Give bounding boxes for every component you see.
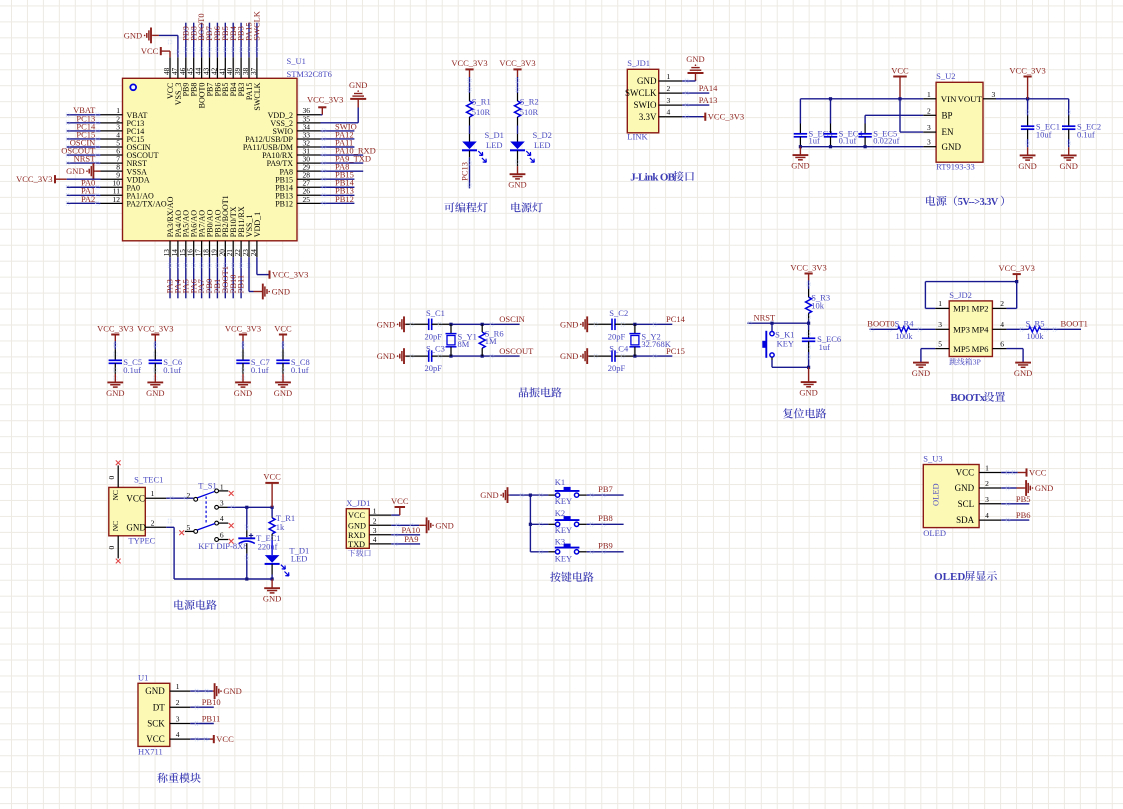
display S_U3 reference — [923, 454, 942, 464]
svg-text:3P: 3P — [973, 358, 982, 367]
U1 HX711 pin numbers — [176, 682, 180, 739]
svg-text:NC: NC — [111, 521, 120, 531]
svg-text:VCC_3V3: VCC_3V3 — [97, 323, 133, 333]
svg-text:VCC: VCC — [126, 493, 145, 503]
switch T_S1 dashed link — [205, 497, 207, 524]
net label PB8 wire (U1 top pin 45) — [188, 23, 198, 58]
svg-text:GND: GND — [126, 522, 146, 532]
svg-text:3: 3 — [220, 499, 224, 508]
svg-text:6: 6 — [1000, 339, 1004, 348]
svg-text:HX711: HX711 — [138, 747, 163, 757]
connector S_JD1 body — [627, 69, 658, 133]
svg-text:15: 15 — [179, 249, 187, 257]
power VCC at S_U3 pin 1 — [1001, 468, 1047, 478]
svg-text:STM32C8T6: STM32C8T6 — [287, 69, 332, 79]
ground below S_C5 — [106, 374, 124, 398]
wire S_JD2 pin5 to ground — [921, 349, 935, 363]
net label PA6 wire (U1 bottom pin 16) — [188, 257, 198, 298]
svg-text:1: 1 — [667, 72, 671, 81]
net label PA12 wire (U1 pin 33) — [321, 129, 355, 140]
ground at U1 pin 35 VSS_2 — [321, 80, 368, 123]
resistor S_R3 10k — [806, 280, 831, 319]
svg-text:5V-->3.3V: 5V-->3.3V — [958, 197, 999, 208]
svg-text:LED: LED — [534, 140, 551, 150]
U1 top pin names — [166, 82, 262, 110]
capacitor S_EC1 10uf — [1021, 99, 1060, 148]
svg-text:VCC_3V3: VCC_3V3 — [708, 112, 744, 122]
resistor S_R6 1M — [479, 324, 503, 356]
svg-text:BOOT0: BOOT0 — [867, 319, 894, 329]
key K2 — [555, 508, 580, 535]
power VCC above S_C8 — [274, 323, 292, 341]
svg-text:K2: K2 — [555, 508, 565, 518]
wire VCC_3V3 to S_C6 — [154, 341, 158, 356]
svg-text:GND: GND — [106, 388, 124, 398]
display S_U3 part name OLED — [923, 528, 946, 538]
wire S_JD2 pin6 to ground — [1007, 349, 1024, 363]
svg-text:12: 12 — [113, 195, 121, 204]
svg-text:SWIO: SWIO — [634, 100, 657, 110]
svg-text:48: 48 — [163, 67, 171, 75]
svg-text:SDA: SDA — [956, 515, 975, 525]
svg-text:PB9: PB9 — [598, 541, 613, 551]
power VCC_3V3 above R2 — [499, 58, 535, 77]
svg-text:PB5: PB5 — [1016, 494, 1031, 504]
svg-text:MP2: MP2 — [972, 304, 989, 314]
svg-text:2: 2 — [373, 517, 377, 526]
X_JD1 pin leads — [369, 515, 391, 544]
svg-text:25: 25 — [303, 195, 311, 204]
svg-text:0.022uf: 0.022uf — [873, 136, 899, 146]
regulator S_U2 part number — [936, 162, 975, 172]
svg-text:0.1uf: 0.1uf — [163, 365, 181, 375]
svg-text:GND: GND — [377, 319, 395, 329]
wire TYPEC VCC to switch pin2 — [166, 496, 194, 500]
svg-text:0: 0 — [107, 476, 116, 480]
svg-text:VOUT: VOUT — [958, 94, 983, 104]
net label PB4 wire (U1 top pin 40) — [228, 23, 238, 58]
power VCC_3V3 at U1 pin 36 VDD_2 — [307, 95, 343, 115]
svg-text:18: 18 — [203, 249, 211, 257]
capacitor S_C2 20pF — [589, 308, 633, 341]
connector X_JD1 part name 下载口 — [348, 549, 371, 556]
net label PC14 wire (U1 pin 3) — [66, 121, 100, 132]
svg-text:OLED: OLED — [931, 483, 941, 506]
power VCC_3V3 above R1 — [451, 58, 487, 77]
ground left of S_C2 — [560, 316, 589, 332]
svg-text:TXD: TXD — [348, 540, 365, 549]
net label BOOT0 wire (U1 top pin 44) — [196, 13, 206, 57]
U1 right pin leads 25-36 — [297, 115, 321, 204]
svg-text:GND: GND — [124, 30, 142, 40]
ground at U1 pin 47 VSS_3 — [124, 28, 178, 58]
svg-text:13: 13 — [163, 249, 171, 257]
svg-text:S_C1: S_C1 — [426, 308, 445, 318]
capacitor S_C1 20pF — [406, 308, 450, 341]
switch T_S1 contact 4 — [215, 514, 234, 528]
net label PA15 wire (U1 top pin 38) — [244, 22, 254, 57]
svg-text:MP5: MP5 — [953, 344, 970, 354]
svg-text:S_R2: S_R2 — [520, 97, 539, 107]
net label PA10 wire (X_JD1 pin 3) — [391, 525, 420, 537]
svg-text:S_JD2: S_JD2 — [949, 290, 972, 300]
net label PA13 wire (S_JD1 pin 3) — [682, 95, 717, 107]
power VCC_3V3 above S_C7 — [225, 323, 261, 341]
U1 left pin leads 1-12 — [101, 115, 123, 204]
svg-text:S_TEC1: S_TEC1 — [134, 475, 163, 485]
svg-text:1uf: 1uf — [809, 136, 821, 146]
S_JD2 pin numbers — [938, 299, 1004, 348]
LED S_D1 — [462, 130, 504, 162]
svg-text:PB10: PB10 — [202, 697, 221, 707]
net label PC15 wire (U1 pin 4) — [66, 129, 100, 140]
regulator S_U2 reference — [936, 71, 955, 81]
svg-text:LED: LED — [486, 140, 503, 150]
net label PB10 wire (U1 bottom pin 21) — [228, 257, 238, 298]
S_U3 pin numbers — [985, 464, 989, 521]
svg-text:GND: GND — [274, 388, 292, 398]
wire R3 to NRST node — [807, 320, 810, 325]
svg-text:NRST: NRST — [754, 312, 777, 322]
svg-text:VCC_3V3: VCC_3V3 — [999, 263, 1035, 273]
net label OSCOUT wire (U1 pin 6) — [61, 145, 100, 156]
S_JD2 pin leads — [935, 308, 1006, 348]
svg-text:VCC: VCC — [141, 46, 159, 56]
ground left of S_C3 — [377, 348, 406, 364]
ground below S_C7 — [234, 374, 252, 398]
svg-text:PB7: PB7 — [598, 484, 613, 494]
svg-text:EN: EN — [942, 127, 954, 137]
svg-text:S_C3: S_C3 — [426, 343, 445, 353]
wire VIN rail — [800, 97, 923, 100]
svg-text:PB12: PB12 — [335, 194, 354, 204]
capacitor S_EC6 1uf — [802, 323, 841, 367]
X_JD1 pin names — [348, 511, 366, 549]
wire VCC_3V3 to S_C7 — [241, 341, 245, 356]
svg-text:OSCIN: OSCIN — [499, 314, 525, 324]
svg-text:4: 4 — [220, 514, 224, 523]
svg-text:MP6: MP6 — [972, 344, 990, 354]
svg-text:46: 46 — [179, 67, 187, 75]
svg-text:VCC: VCC — [1029, 468, 1047, 478]
svg-text:GND: GND — [480, 490, 498, 500]
svg-text:OSCOUT: OSCOUT — [499, 346, 534, 356]
wire VOUT rail — [996, 97, 1069, 100]
LED S_D2 — [510, 130, 552, 162]
X_JD1 pin numbers — [373, 506, 377, 544]
svg-text:GND: GND — [942, 142, 962, 152]
svg-text:VCC_3V3: VCC_3V3 — [272, 270, 308, 280]
ground at X_JD1 pin 2 — [391, 517, 454, 533]
ground at S_JD1 pin 1 — [682, 54, 704, 83]
S_U3 pin names — [955, 468, 975, 526]
ground below T_D1 — [263, 579, 281, 604]
net label SWCLK wire (U1 top pin 37) — [252, 10, 262, 57]
capacitor S_C6 0.1uf — [149, 349, 183, 380]
power VCC_3V3 above S_C5 — [97, 323, 133, 341]
power VCC_3V3 at U1 pin 9 VDDA — [16, 174, 100, 184]
svg-text:GND: GND — [349, 80, 367, 90]
svg-text:20pF: 20pF — [608, 331, 626, 341]
svg-text:K1: K1 — [555, 477, 565, 487]
svg-text:4: 4 — [667, 108, 671, 117]
svg-text:1M: 1M — [485, 336, 497, 346]
svg-text:16: 16 — [187, 249, 195, 257]
U1 left pin names — [127, 111, 167, 209]
svg-text:LINK: LINK — [627, 132, 648, 142]
svg-text:1: 1 — [176, 682, 180, 691]
svg-text:19: 19 — [210, 249, 218, 257]
svg-text:GND: GND — [1014, 368, 1032, 378]
connector S_JD1 reference — [627, 58, 650, 68]
ground below reset node — [799, 366, 817, 398]
ground left of S_C1 — [377, 316, 406, 332]
svg-text:220uf: 220uf — [258, 541, 278, 551]
svg-text:BP: BP — [942, 110, 953, 120]
svg-text:S_JD1: S_JD1 — [627, 58, 650, 68]
net label BOOT0 wire — [867, 319, 897, 332]
svg-text:RXD: RXD — [348, 531, 366, 540]
U1 bottom pin numbers 13-24 — [163, 249, 258, 257]
bottom pins connection dots — [168, 264, 251, 292]
svg-text:SWCLK: SWCLK — [252, 10, 262, 41]
svg-text:T_S1: T_S1 — [198, 481, 216, 491]
svg-text:17: 17 — [195, 249, 203, 257]
wire VCC_3V3 to R2 — [516, 77, 520, 93]
IC S_U1 part number — [287, 69, 332, 79]
svg-text:1: 1 — [151, 489, 155, 498]
svg-text:6: 6 — [220, 531, 224, 540]
svg-text:PB11: PB11 — [202, 714, 221, 724]
svg-text:VCC: VCC — [274, 323, 292, 333]
key K3 — [555, 537, 580, 564]
svg-text:PA14: PA14 — [699, 83, 718, 93]
svg-text:GND: GND — [508, 180, 526, 190]
svg-text:GND: GND — [377, 351, 395, 361]
svg-text:PA9: PA9 — [404, 534, 418, 544]
resistor T_R1 1k — [269, 507, 295, 540]
wire switch pin3 to VCC node — [228, 506, 274, 510]
net label PB6 wire (S_U3 pin 4) — [1001, 510, 1030, 522]
svg-text:S_R5: S_R5 — [1026, 319, 1045, 329]
svg-text:PA2/TX/AO: PA2/TX/AO — [127, 199, 167, 208]
svg-text:VCC: VCC — [146, 734, 165, 744]
caption BOOTx设置 — [950, 392, 1005, 404]
S_JD1 pin names — [625, 76, 657, 122]
net label PB7 wire (U1 top pin 43) — [204, 23, 214, 58]
wire EN to VCC node — [900, 99, 923, 132]
switch T_S1 reference — [198, 481, 216, 491]
svg-text:20pF: 20pF — [425, 331, 443, 341]
wire bus to K3 — [530, 550, 555, 554]
svg-text:VCC: VCC — [216, 734, 234, 744]
wire T_R1 to T_D1 — [271, 540, 273, 555]
net label PA1 wire (U1 pin 11) — [66, 186, 100, 197]
capacitor S_EC3 1uf — [794, 99, 833, 147]
svg-text:SWCLK: SWCLK — [253, 82, 262, 110]
net label PB9 wire (K3) — [579, 541, 624, 554]
U1 right pin names — [243, 111, 294, 209]
svg-text:VCC: VCC — [348, 511, 366, 520]
key K1 — [555, 477, 580, 506]
wire TYPEC GND rail — [166, 519, 272, 580]
ground below S_C6 — [146, 374, 164, 398]
power VCC at U1 pin 4 — [190, 734, 234, 744]
resistor S_R1 510R — [467, 93, 491, 126]
net label PB5 wire (U1 top pin 41) — [220, 23, 230, 58]
svg-text:3: 3 — [938, 320, 942, 329]
svg-text:2: 2 — [985, 479, 989, 488]
svg-text:VIN: VIN — [941, 94, 957, 104]
wire OSCOUT net — [449, 346, 534, 358]
ground below S_JD2 pin6 — [1014, 362, 1032, 378]
ground below S_EC2 — [1059, 147, 1077, 171]
wire PC14 net — [633, 314, 686, 326]
svg-text:47: 47 — [171, 67, 179, 75]
svg-text:20pF: 20pF — [608, 363, 626, 373]
svg-text:TYPEC: TYPEC — [128, 536, 155, 546]
caption OLED屏显示 — [934, 571, 997, 583]
svg-text:S_C2: S_C2 — [609, 308, 628, 318]
svg-text:3: 3 — [927, 123, 931, 132]
wire VCC to S_C8 — [281, 341, 285, 356]
svg-text:39: 39 — [234, 67, 242, 75]
connector S_JD2 body — [949, 301, 992, 357]
svg-text:U1: U1 — [138, 672, 148, 682]
net label PC13 wire (U1 pin 2) — [66, 113, 100, 124]
svg-text:37: 37 — [250, 67, 258, 75]
svg-text:J-Link OB: J-Link OB — [630, 171, 675, 183]
U1 HX711 pin names — [145, 686, 165, 744]
ground left of S_C4 — [560, 348, 589, 364]
svg-text:43: 43 — [203, 67, 211, 75]
ground below S_C8 — [274, 374, 292, 398]
net label PB9 wire (U1 top pin 46) — [180, 23, 190, 58]
svg-text:4: 4 — [373, 535, 377, 544]
svg-text:3: 3 — [985, 495, 989, 504]
S_JD1 pin numbers — [667, 72, 671, 117]
regulator S_U2 body — [936, 82, 983, 162]
net label VBAT wire (U1 pin 1) — [66, 105, 100, 116]
svg-text:1: 1 — [220, 482, 224, 491]
svg-text:NC: NC — [111, 490, 120, 500]
switch T_S1 contact 6 — [215, 531, 234, 544]
S_U3 OLED side label — [931, 483, 941, 506]
S_TEC1 bottom NC pin 0 — [107, 536, 121, 564]
svg-text:GND: GND — [955, 483, 975, 493]
svg-text:S_U3: S_U3 — [923, 454, 942, 464]
net label PA0 wire (U1 pin 10) — [66, 178, 100, 189]
net label PB5 wire (S_U3 pin 3) — [1001, 494, 1030, 506]
svg-text:GND: GND — [1035, 483, 1053, 493]
svg-text:KEY: KEY — [555, 554, 572, 564]
svg-text:22: 22 — [234, 249, 242, 257]
capacitor S_C3 20pF — [406, 343, 450, 373]
ground at U1 pin 23 VSS_1 — [249, 257, 290, 299]
svg-text:OLED: OLED — [934, 571, 965, 583]
svg-text:PB11: PB11 — [236, 275, 246, 294]
wire VCC_3V3 to S_C5 — [114, 341, 118, 356]
svg-text:1uf: 1uf — [819, 342, 831, 352]
svg-text:S_D2: S_D2 — [533, 130, 552, 140]
svg-text:VCC_3V3: VCC_3V3 — [790, 262, 826, 272]
net label PA14 wire (S_JD1 pin 2) — [682, 83, 718, 95]
ground at U1 pin 1 — [190, 683, 242, 699]
svg-text:RT9193-33: RT9193-33 — [936, 162, 975, 172]
svg-text:0.1uf: 0.1uf — [251, 365, 269, 375]
net label PB8 wire (K2) — [579, 513, 624, 526]
net label PB15 wire (U1 pin 28) — [321, 170, 355, 181]
svg-text:BOOTx: BOOTx — [950, 392, 985, 404]
crystal S_Y2 32.768K — [629, 324, 671, 356]
S_TEC1 pin names — [111, 490, 147, 532]
svg-text:1: 1 — [938, 299, 942, 308]
power VCC above T_R1 — [263, 472, 281, 508]
connector S_JD2 reference — [949, 290, 972, 300]
module U1 HX711 body — [138, 683, 170, 746]
net label PA8 wire (U1 pin 29) — [321, 162, 364, 173]
svg-text:0.1uf: 0.1uf — [291, 365, 309, 375]
S_JD2 pin names — [953, 304, 989, 354]
net label PA7 wire (U1 bottom pin 17) — [196, 257, 206, 298]
svg-text:SCK: SCK — [147, 719, 165, 729]
switch T_S1 contact 3 — [215, 499, 228, 510]
connector S_TEC1 part name TYPEC — [128, 536, 155, 546]
net label NRST wire (U1 pin 7) — [66, 154, 100, 165]
caption 电源电路 — [174, 600, 216, 610]
svg-text:510R: 510R — [520, 107, 539, 117]
svg-text:PB12: PB12 — [275, 199, 293, 208]
power VCC above S_U2 — [891, 65, 909, 99]
connector S_JD2 part name — [949, 358, 981, 367]
connector S_TEC1 reference — [134, 475, 163, 485]
svg-text:3: 3 — [176, 715, 180, 724]
svg-text:VCC_3V3: VCC_3V3 — [137, 323, 173, 333]
svg-text:4: 4 — [985, 511, 989, 520]
switch T_S1 pole 2 — [186, 491, 197, 501]
net label PB10 wire (U1 pin 2) — [190, 697, 220, 709]
svg-text:VCC: VCC — [263, 472, 281, 482]
U1 top pin leads 37-48 — [170, 57, 257, 78]
svg-text:2: 2 — [667, 84, 671, 93]
net label PA10_RXD wire (U1 pin 31) — [321, 145, 376, 156]
net label SWIO wire (U1 pin 34) — [321, 121, 357, 132]
capacitor T_EC1 220uf — [238, 507, 280, 579]
wire S_JD2 pin2 to VCC_3V3 — [1007, 282, 1017, 309]
net label PB13 wire (U1 pin 26) — [321, 186, 355, 197]
power VCC_3V3 above S_JD2 — [999, 263, 1035, 282]
wire T_D1 to ground node — [271, 564, 274, 580]
net label PB1 wire (U1 bottom pin 19) — [212, 257, 222, 298]
svg-text:5: 5 — [938, 339, 942, 348]
svg-text:PA13: PA13 — [699, 95, 718, 105]
U1 right pin numbers 25-36 — [303, 106, 311, 204]
U1 bottom pin leads 13-24 — [170, 241, 257, 257]
capacitor S_EC5 0.022uf — [858, 128, 899, 146]
wire BP to EC5 — [865, 115, 923, 134]
svg-text:5: 5 — [186, 523, 190, 532]
svg-text:0.1uf: 0.1uf — [839, 136, 857, 146]
net label PA2 wire (U1 pin 12) — [66, 194, 100, 205]
ground at U1 pin 8 VSSA — [66, 163, 100, 179]
wire bus to K1 — [530, 493, 555, 497]
svg-text:3: 3 — [927, 138, 931, 147]
net label PC13 wire below D1 — [460, 151, 472, 189]
power VCC_3V3 above VOUT — [1009, 65, 1045, 99]
connector S_TEC1 body — [109, 487, 146, 535]
svg-text:KEY: KEY — [777, 339, 794, 349]
svg-text:3: 3 — [667, 96, 671, 105]
